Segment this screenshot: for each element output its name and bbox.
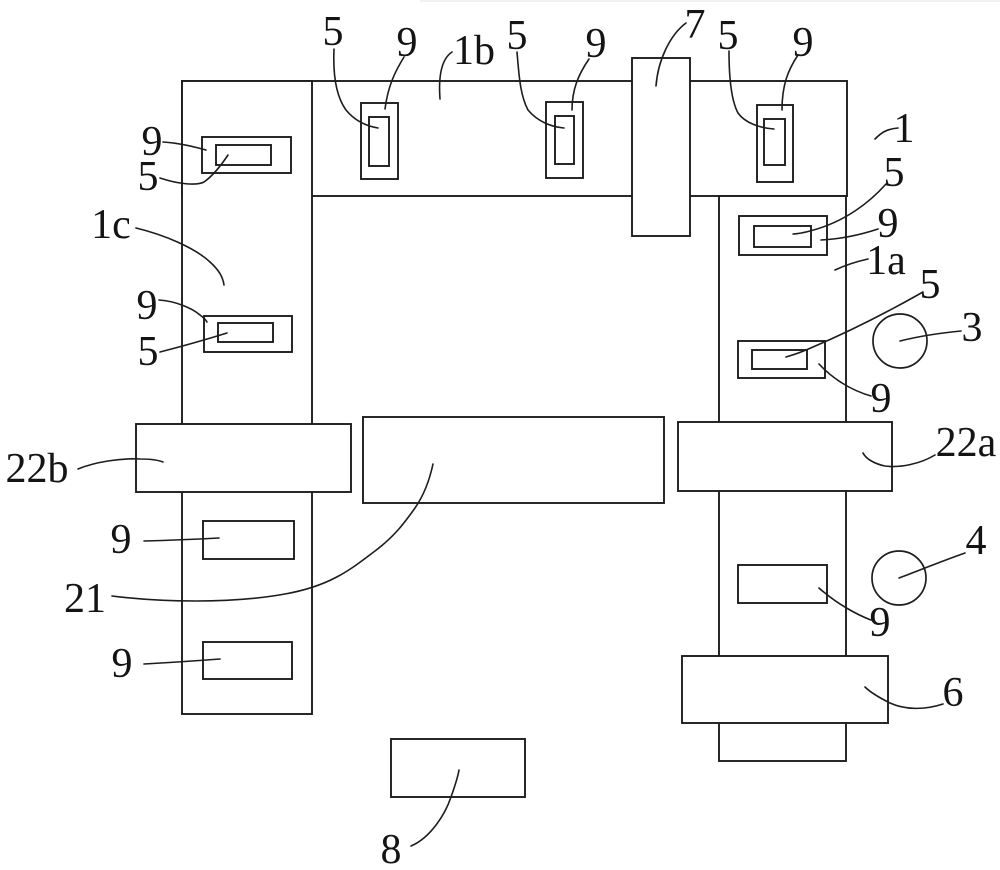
slot H 9	[738, 565, 827, 603]
svg-text:5: 5	[920, 262, 941, 308]
svg-text:22b: 22b	[6, 446, 69, 492]
svg-text:9: 9	[870, 600, 891, 646]
leader 4	[899, 553, 965, 578]
leader 5 to C	[334, 49, 378, 128]
central block 21	[363, 417, 664, 503]
leader 5 to A	[160, 155, 228, 184]
block 22a	[678, 422, 892, 491]
svg-text:9: 9	[137, 283, 158, 329]
leader 22b	[78, 459, 163, 469]
fastener B outer 9	[204, 316, 292, 352]
leader 6	[865, 687, 943, 708]
svg-text:5: 5	[718, 13, 739, 59]
leader 9 to A	[163, 142, 206, 150]
svg-text:9: 9	[397, 20, 418, 66]
leader 9 to C	[385, 57, 404, 109]
leader 5 to E	[729, 51, 774, 129]
fastener C outer 9	[361, 103, 398, 179]
svg-text:9: 9	[793, 20, 814, 66]
svg-text:4: 4	[966, 518, 987, 564]
leader 5 to B	[160, 333, 227, 352]
leader 9 to J	[144, 659, 220, 664]
svg-text:9: 9	[112, 641, 133, 687]
leader 9 to F	[821, 229, 878, 240]
circle 3	[873, 314, 927, 368]
leader 8	[411, 770, 459, 846]
svg-text:5: 5	[323, 9, 344, 55]
leader 5 to D	[517, 52, 564, 128]
fastener B inner 5	[218, 323, 273, 342]
left column 1c	[182, 81, 312, 714]
leader 9 to D	[572, 59, 589, 110]
leader 22a	[863, 453, 935, 467]
svg-text:9: 9	[111, 517, 132, 563]
block 22b	[136, 424, 351, 492]
vertical block 7	[632, 58, 690, 236]
svg-text:9: 9	[586, 21, 607, 67]
slot I 9	[203, 521, 294, 559]
leader 9 to H	[819, 588, 871, 620]
fastener D inner 5	[555, 116, 574, 164]
leader 5 to F	[793, 184, 886, 234]
leader 7	[656, 23, 686, 86]
scan artifact top edge	[420, 0, 1000, 2]
svg-text:21: 21	[64, 576, 106, 622]
leader 1a	[835, 259, 868, 270]
svg-text:6: 6	[943, 670, 964, 716]
fastener F inner 5	[754, 226, 811, 247]
leader 9 to E	[782, 55, 798, 110]
svg-text:3: 3	[962, 305, 983, 351]
leader 3	[900, 331, 961, 341]
svg-text:1c: 1c	[91, 202, 131, 248]
block 8	[391, 739, 525, 797]
svg-text:8: 8	[381, 827, 402, 870]
svg-text:5: 5	[138, 154, 159, 200]
fastener G outer 9	[738, 341, 825, 378]
fastener C inner 5	[369, 117, 389, 166]
fastener G inner 5	[752, 350, 807, 369]
leader 9 to B	[159, 300, 207, 322]
svg-text:1b: 1b	[453, 28, 495, 74]
leader 1c	[136, 228, 224, 285]
svg-text:22a: 22a	[936, 420, 997, 466]
svg-text:5: 5	[138, 329, 159, 375]
svg-text:5: 5	[507, 13, 528, 59]
leader 1b	[440, 52, 452, 99]
leader 9 to G	[819, 364, 871, 396]
fastener A outer 9	[202, 137, 291, 173]
fastener D outer 9	[546, 102, 583, 178]
top bar 1b	[182, 81, 847, 196]
circle 4	[872, 551, 926, 605]
svg-text:9: 9	[871, 376, 892, 422]
svg-text:5: 5	[884, 150, 905, 196]
fastener E inner 5	[764, 119, 785, 165]
svg-text:1a: 1a	[866, 238, 906, 284]
leader 1	[875, 128, 898, 139]
leader 9 to I	[144, 538, 219, 541]
block 6	[682, 656, 888, 723]
svg-text:1: 1	[894, 106, 915, 152]
leader 21	[112, 464, 433, 601]
slot J 9	[203, 642, 292, 679]
fastener F outer 9	[739, 216, 827, 255]
right column 1a	[719, 196, 846, 761]
leader 5 to G	[786, 292, 923, 357]
fastener E outer 9	[757, 105, 793, 182]
svg-text:7: 7	[685, 2, 706, 48]
fastener A inner 5	[216, 145, 271, 165]
